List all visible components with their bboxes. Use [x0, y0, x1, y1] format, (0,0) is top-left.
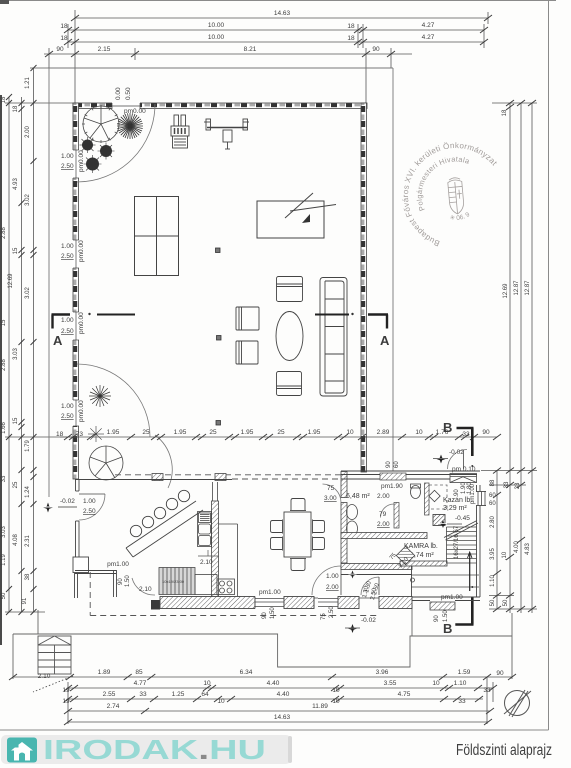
kitchen bar diagonal counter: [126, 501, 203, 557]
svg-text:1.00: 1.00: [61, 403, 74, 410]
roof overhang dashed lines: [115, 475, 341, 479]
cross-hatched pillar: [433, 515, 445, 526]
chair bottom: [291, 559, 305, 571]
terrace small markers: [216, 248, 222, 425]
door arc south into dining: [312, 566, 341, 595]
svg-text:3.96: 3.96: [376, 669, 389, 676]
svg-text:-0.45: -0.45: [455, 515, 470, 522]
window 2 (75/2.50): [318, 596, 338, 609]
sofa long: [320, 278, 347, 397]
svg-text:Kazán lb.: Kazán lb.: [443, 497, 472, 504]
dim line 90/2.15/8.21/90: [44, 53, 412, 55]
svg-text:15: 15: [1, 319, 7, 326]
svg-text:90: 90: [482, 429, 490, 436]
svg-text:3.02: 3.02: [25, 287, 31, 299]
svg-text:-0.02: -0.02: [361, 617, 376, 624]
svg-text:2.10: 2.10: [139, 586, 152, 593]
svg-text:1.95: 1.95: [107, 429, 120, 436]
east window: [470, 483, 496, 507]
kazan wall vertical: [425, 483, 430, 515]
terrace corner arc bottom-left: [77, 364, 150, 437]
svg-text:1.00: 1.00: [326, 573, 339, 580]
right chain line A x=510: [509, 103, 511, 613]
bottom dimension chains: [13, 677, 512, 724]
svg-text:6.34: 6.34: [240, 669, 253, 676]
svg-text:pm0.00: pm0.00: [78, 400, 85, 422]
svg-text:B: B: [443, 621, 452, 636]
svg-text:50: 50: [490, 599, 496, 606]
left chain line 2: [21, 97, 23, 612]
tick marks top dims: [45, 15, 492, 57]
right chain labels: [490, 109, 531, 606]
kitchen base counter: [195, 575, 217, 595]
svg-text:2.50: 2.50: [83, 508, 96, 515]
left chain labels (rotated): [1, 77, 31, 605]
left chain line 3: [33, 68, 35, 612]
svg-text:10.00: 10.00: [208, 34, 225, 41]
entry door NE: [448, 449, 476, 473]
terrace left wall: [73, 103, 79, 437]
lower landing lines: [411, 574, 479, 576]
svg-text:1.95: 1.95: [308, 429, 321, 436]
right chain line B x=521: [520, 103, 522, 613]
wall between bath and kamra (horizontal hatched): [341, 533, 427, 539]
kitchen appliances column: [198, 512, 212, 547]
porch column 2: [215, 474, 226, 481]
parasol table: [257, 193, 336, 238]
svg-text:38: 38: [25, 573, 31, 580]
svg-text:18: 18: [1, 96, 7, 103]
svg-text:2.50: 2.50: [329, 606, 335, 618]
svg-text:10: 10: [203, 680, 211, 687]
terrace right wall: [361, 103, 367, 437]
compass: [504, 690, 531, 717]
level star west: [43, 503, 53, 513]
svg-text:25: 25: [277, 429, 285, 436]
door opening south (1.00/2.00): [314, 597, 341, 609]
svg-text:4.40: 4.40: [277, 691, 290, 698]
svg-text:14.63: 14.63: [274, 714, 291, 721]
window in left wall 1: [73, 150, 80, 178]
terrace bottom dim chain: [60, 436, 497, 438]
svg-text:pm1.00: pm1.00: [107, 561, 129, 568]
play equipment icon 2 (swing): [204, 119, 249, 149]
south wall left hatched band: [151, 596, 412, 610]
svg-text:1.50: 1.50: [125, 575, 131, 587]
svg-text:.10: .10: [502, 551, 508, 560]
svg-text:2.50: 2.50: [61, 163, 74, 170]
house south wall right (below stair): [412, 597, 480, 601]
svg-text:10: 10: [432, 680, 440, 687]
svg-text:33: 33: [504, 481, 510, 488]
entry porch walls hatched: [450, 450, 477, 483]
svg-text:4.00: 4.00: [514, 541, 520, 553]
svg-text:1.10: 1.10: [454, 680, 467, 687]
svg-text:2.80: 2.80: [490, 516, 496, 528]
svg-text:pm 0.10: pm 0.10: [452, 466, 476, 473]
porch column 1: [152, 474, 163, 481]
svg-text:1.25: 1.25: [172, 691, 185, 698]
svg-text:1.21: 1.21: [25, 77, 31, 89]
kitchen tall wall: [212, 501, 219, 599]
svg-text:8.21: 8.21: [244, 46, 257, 53]
extension horizontals right: [492, 102, 537, 104]
right chain line C x=532: [531, 103, 533, 613]
door arc bath: [323, 484, 342, 503]
section B-B bottom: [443, 586, 474, 636]
svg-text:19: 19: [62, 687, 70, 694]
boundary right edge: [392, 68, 394, 471]
svg-text:2.50: 2.50: [61, 328, 74, 335]
svg-text:50: 50: [503, 599, 509, 606]
boundary top edge: [49, 67, 393, 69]
svg-text:75: 75: [321, 613, 327, 620]
dim line 18/10.00/18/4.27 lower: [68, 41, 484, 43]
svg-text:1.59: 1.59: [458, 669, 471, 676]
svg-text:16x27/16.67: 16x27/16.67: [454, 525, 460, 559]
coat of arms: [447, 177, 464, 214]
boiler dashed box: [429, 485, 447, 509]
svg-text:64: 64: [201, 691, 209, 698]
svg-text:90: 90: [262, 612, 268, 619]
svg-text:1.00: 1.00: [61, 153, 74, 160]
window in left wall 3: [73, 312, 80, 340]
svg-text:10: 10: [415, 429, 423, 436]
plot fence bottom: [13, 605, 512, 679]
svg-text:2.10: 2.10: [38, 673, 51, 680]
toilet: [411, 484, 421, 499]
svg-text:12.87: 12.87: [514, 280, 520, 296]
svg-text:-0.02: -0.02: [449, 449, 464, 456]
svg-text:Földszinti alaprajz: Földszinti alaprajz: [456, 742, 552, 759]
bush 1: [82, 140, 112, 171]
svg-text:2.88: 2.88: [1, 359, 7, 371]
scan edge strip left: [0, 95, 2, 645]
svg-text:50: 50: [1, 592, 7, 599]
kitchen counter return: [219, 524, 238, 596]
svg-text:A: A: [380, 333, 390, 348]
svg-text:3.95: 3.95: [490, 548, 496, 560]
small starburst near gate: [88, 426, 104, 442]
seat top: [277, 277, 303, 302]
svg-text:2.55: 2.55: [103, 691, 116, 698]
svg-text:2.00: 2.00: [377, 521, 390, 528]
svg-text:10x19/23.00: 10x19/23.00: [162, 579, 185, 584]
armchair 2: [236, 341, 258, 364]
south wall labels: [262, 606, 335, 620]
house north wall right section: [341, 471, 480, 479]
svg-text:B: B: [443, 420, 452, 435]
svg-text:4.75: 4.75: [398, 691, 411, 698]
right chain line D x=497 house: [496, 470, 498, 609]
house east wall: [477, 485, 481, 597]
svg-text:33: 33: [1, 475, 7, 482]
cooktop: [217, 579, 235, 595]
house west wall: [76, 479, 80, 557]
svg-text:91: 91: [22, 597, 28, 604]
svg-text:4.93: 4.93: [13, 178, 19, 190]
table tennis table: [135, 197, 179, 276]
house south-west corner block: [73, 557, 89, 573]
svg-text:33: 33: [458, 698, 466, 705]
bar stools: [130, 490, 189, 536]
svg-text:1.00: 1.00: [61, 243, 74, 250]
small sink kazan: [429, 490, 440, 501]
svg-text:1.19: 1.19: [1, 554, 7, 566]
terrace right wall continuation to house: [361, 437, 367, 472]
svg-text:15: 15: [13, 417, 19, 424]
wall pm1.00 segment: [75, 570, 117, 598]
tree (pie) below terrace: [89, 446, 123, 480]
window in left wall 4: [73, 400, 80, 426]
svg-text:90: 90: [56, 46, 64, 53]
svg-text:3.03: 3.03: [13, 348, 19, 360]
svg-text:10: 10: [217, 698, 225, 705]
terrace corner arc top-left: [77, 104, 155, 182]
svg-text:3.00: 3.00: [324, 495, 337, 502]
section A-A line: [52, 313, 391, 348]
svg-text:60: 60: [489, 501, 496, 507]
svg-text:18: 18: [60, 35, 68, 42]
svg-text:1.95: 1.95: [174, 429, 187, 436]
svg-text:2.50: 2.50: [61, 413, 74, 420]
hall level star (middle): [349, 571, 357, 579]
svg-text:90: 90: [454, 489, 460, 496]
tree (starburst) top: [117, 113, 143, 139]
kamra bottom wall: [400, 561, 447, 566]
svg-text:4.27: 4.27: [422, 34, 435, 41]
svg-text:14.63: 14.63: [274, 10, 291, 17]
svg-text:-0.02: -0.02: [60, 498, 75, 505]
svg-text:4.40: 4.40: [267, 680, 280, 687]
hall wall bottom (hatched): [341, 564, 412, 570]
svg-text:1.50: 1.50: [270, 607, 276, 619]
svg-text:75: 75: [327, 485, 335, 492]
svg-text:1.95: 1.95: [241, 429, 254, 436]
svg-text:10: 10: [346, 429, 354, 436]
dim line 18/10.00/18/4.27 upper: [68, 29, 484, 31]
svg-text:1.24: 1.24: [25, 486, 31, 498]
svg-text:33: 33: [139, 691, 147, 698]
svg-text:3.03: 3.03: [1, 526, 7, 538]
west wall labels: [60, 498, 96, 515]
svg-text:2.15: 2.15: [98, 46, 111, 53]
svg-text:2.89: 2.89: [377, 429, 390, 436]
dim line 14.63 top: [75, 17, 488, 19]
top wall window labels: [115, 87, 146, 115]
svg-text:1.79: 1.79: [25, 440, 31, 452]
svg-text:2.00: 2.00: [25, 126, 31, 138]
svg-text:4.83: 4.83: [525, 543, 531, 555]
door arc at small stair: [132, 578, 155, 595]
west door arc: [79, 494, 105, 520]
seating group: armchair 1: [236, 307, 259, 330]
stair cut line: [444, 521, 477, 538]
window in north wall right: [380, 473, 406, 480]
svg-text:33: 33: [462, 431, 470, 438]
svg-text:15: 15: [13, 247, 19, 254]
svg-text:10: 10: [332, 687, 340, 694]
svg-text:90: 90: [496, 670, 504, 677]
svg-text:90: 90: [372, 46, 380, 53]
svg-text:1.89: 1.89: [98, 669, 111, 676]
svg-text:1.00: 1.00: [83, 498, 96, 505]
svg-text:90: 90: [118, 578, 124, 585]
seat bottom: [277, 372, 302, 396]
ticks left chains: [6, 65, 37, 615]
svg-text:19: 19: [62, 698, 70, 705]
svg-text:88: 88: [490, 479, 496, 486]
svg-text:33: 33: [515, 482, 521, 489]
svg-text:10: 10: [332, 698, 340, 705]
label 2.10 kitchen: [198, 550, 218, 566]
terrace top wall: [73, 103, 368, 479]
svg-text:pm0.00: pm0.00: [78, 150, 85, 172]
chairs right: [313, 521, 325, 533]
gate door arc below terrace: [155, 435, 172, 488]
extension horizontals: [30, 67, 49, 69]
chairs left: [271, 521, 283, 533]
svg-text:1.80: 1.80: [467, 482, 473, 494]
svg-text:pm0.00: pm0.00: [78, 312, 85, 334]
window 1 in south wall: [255, 596, 284, 609]
dining table: [271, 499, 325, 571]
small stair west (to basement): [159, 568, 195, 595]
svg-text:A: A: [53, 333, 63, 348]
svg-text:25: 25: [209, 429, 217, 436]
svg-text:0.00: 0.00: [115, 87, 122, 100]
south door right with hatch: [430, 594, 463, 622]
interior wall dining/bath vertical: [341, 472, 347, 498]
svg-text:1.50: 1.50: [443, 610, 449, 622]
svg-text:1.10: 1.10: [490, 575, 496, 587]
svg-text:25: 25: [142, 429, 150, 436]
svg-text:3.02: 3.02: [25, 194, 31, 206]
house north wall left: [75, 479, 232, 481]
svg-text:18: 18: [60, 23, 68, 30]
svg-text:18: 18: [502, 109, 508, 116]
svg-text:2.74: 2.74: [107, 703, 120, 710]
partition wall in bath: [394, 503, 399, 529]
svg-text:2.88: 2.88: [1, 227, 7, 239]
svg-text:3,29 m²: 3,29 m²: [443, 505, 467, 512]
section B-B top: [443, 420, 474, 467]
rotated door labels 1.30 2.50 near hall: [362, 585, 378, 600]
svg-text:1.00: 1.00: [61, 317, 74, 324]
house icon: [7, 738, 37, 763]
svg-text:85: 85: [135, 669, 143, 676]
svg-text:4.08: 4.08: [13, 534, 19, 546]
svg-text:3.55: 3.55: [384, 680, 397, 687]
svg-text:18: 18: [347, 23, 355, 30]
svg-text:12.69: 12.69: [503, 283, 509, 299]
svg-text:pm0.00: pm0.00: [78, 240, 85, 262]
svg-text:12.87: 12.87: [525, 280, 531, 296]
twin basins: [347, 505, 358, 537]
left chain line 1: [8, 97, 10, 612]
svg-text:2.00: 2.00: [377, 493, 390, 500]
svg-text:18: 18: [347, 35, 355, 42]
chair top: [291, 499, 305, 511]
svg-text:33: 33: [483, 687, 491, 694]
coffee table oval: [276, 312, 303, 361]
diagonal door kamra: [389, 546, 415, 569]
svg-text:79: 79: [379, 511, 387, 518]
svg-text:0.50: 0.50: [125, 87, 132, 100]
svg-text:60: 60: [489, 493, 496, 499]
svg-text:KAMRA lb.: KAMRA lb.: [404, 543, 438, 550]
tree (starburst) bottom-left of terrace: [89, 385, 111, 407]
svg-text:90: 90: [434, 615, 440, 622]
svg-text:2.00: 2.00: [326, 584, 339, 591]
svg-text:10.00: 10.00: [208, 22, 225, 29]
tree (pie) top-left: [82, 105, 120, 143]
svg-text:6,48 m²: 6,48 m²: [346, 493, 370, 500]
svg-text:18: 18: [13, 105, 19, 112]
svg-text:4.27: 4.27: [422, 22, 435, 29]
svg-text:90: 90: [386, 461, 392, 468]
svg-text:pm1.00: pm1.00: [259, 589, 281, 596]
svg-text:1.66: 1.66: [1, 422, 7, 434]
boundary left edge: [48, 68, 50, 497]
svg-text:IRODAK.HU: IRODAK.HU: [43, 734, 266, 765]
svg-text:pm1.90: pm1.90: [381, 483, 403, 490]
stair direction arrow: [468, 552, 473, 591]
svg-text:2.50: 2.50: [61, 253, 74, 260]
canopy dashed outline bottom-left: [90, 572, 377, 616]
svg-text:12.69: 12.69: [8, 273, 14, 289]
window in left wall 2: [73, 240, 80, 268]
main staircase: [411, 521, 480, 588]
left wall continuation to house: [73, 437, 79, 479]
svg-text:2.10: 2.10: [200, 559, 213, 566]
extension verticals: [74, 10, 76, 103]
svg-text:4.77: 4.77: [134, 680, 147, 687]
svg-text:2.31: 2.31: [25, 535, 31, 547]
play equipment icon 1 (bbq/bench): [171, 115, 189, 148]
svg-text:pm1.00: pm1.00: [441, 594, 463, 601]
svg-text:25: 25: [13, 481, 19, 488]
external stair bottom left: [33, 636, 73, 692]
window in top wall: [112, 103, 140, 110]
left wall window labels: [56, 150, 85, 438]
svg-text:11.89: 11.89: [312, 703, 328, 710]
svg-text:60: 60: [394, 461, 400, 468]
door arc 2 south (hall): [361, 577, 379, 595]
window lines across door gap: [76, 490, 80, 492]
